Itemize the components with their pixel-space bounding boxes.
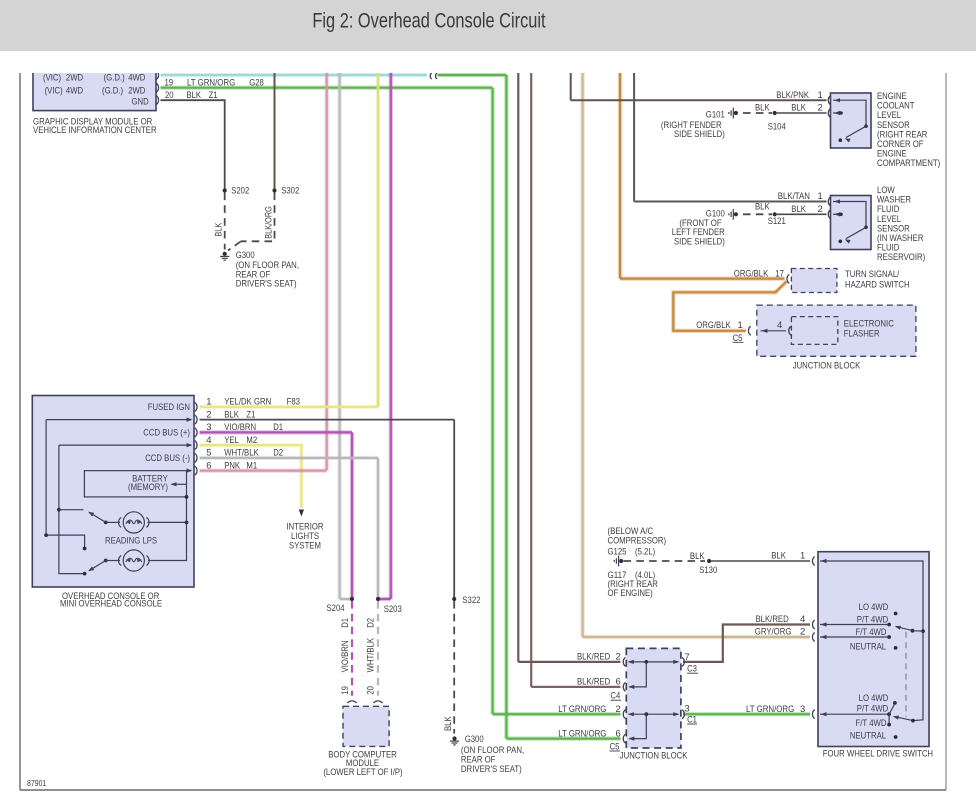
svg-text:COMPRESSOR): COMPRESSOR) [608, 536, 667, 547]
svg-text:S121: S121 [768, 216, 786, 227]
svg-text:D1: D1 [340, 618, 351, 628]
svg-text:BLK: BLK [690, 551, 705, 562]
svg-text:20: 20 [366, 686, 377, 695]
svg-text:S130: S130 [699, 565, 717, 576]
svg-text:WHT/BLK: WHT/BLK [366, 637, 377, 672]
svg-text:CCD BUS (-): CCD BUS (-) [145, 453, 190, 464]
svg-text:FOUR WHEEL DRIVE SWITCH: FOUR WHEEL DRIVE SWITCH [823, 748, 933, 759]
svg-text:BLK/PNK: BLK/PNK [776, 90, 809, 101]
svg-text:BLK/ORG: BLK/ORG [263, 206, 273, 239]
svg-text:BLK: BLK [755, 202, 770, 213]
svg-text:2WD: 2WD [128, 85, 145, 96]
svg-text:Fig 2: Overhead Console Circui: Fig 2: Overhead Console Circuit [312, 9, 545, 33]
svg-text:87901: 87901 [27, 778, 47, 788]
svg-text:S203: S203 [384, 604, 402, 615]
svg-text:19: 19 [340, 686, 351, 695]
svg-text:MINI OVERHEAD CONSOLE: MINI OVERHEAD CONSOLE [60, 599, 162, 610]
svg-text:(G.D.): (G.D.) [104, 73, 125, 84]
svg-text:(5.2L): (5.2L) [635, 547, 655, 558]
svg-text:VIO/BRN: VIO/BRN [340, 640, 351, 672]
svg-text:SIDE SHIELD): SIDE SHIELD) [674, 236, 725, 247]
svg-text:4WD: 4WD [66, 85, 83, 96]
svg-text:BLK: BLK [791, 204, 806, 215]
svg-text:BLK: BLK [443, 716, 454, 731]
svg-text:BLK/TAN: BLK/TAN [778, 191, 810, 202]
svg-text:2: 2 [616, 652, 621, 663]
svg-text:(VIC): (VIC) [45, 85, 63, 96]
svg-text:(VIC): (VIC) [43, 73, 61, 84]
svg-text:1: 1 [738, 320, 743, 331]
svg-text:S302: S302 [281, 185, 299, 196]
svg-text:BLK: BLK [791, 103, 806, 114]
svg-text:(MEMORY): (MEMORY) [128, 482, 168, 493]
svg-text:LO 4WD: LO 4WD [859, 602, 889, 613]
svg-text:BLK: BLK [214, 223, 224, 237]
svg-text:ORG/BLK: ORG/BLK [734, 268, 769, 279]
svg-text:2: 2 [818, 103, 823, 114]
svg-text:P/T 4WD: P/T 4WD [857, 703, 889, 714]
svg-text:BLK: BLK [771, 550, 786, 561]
svg-text:2: 2 [818, 204, 823, 215]
svg-text:(LOWER LEFT OF I/P): (LOWER LEFT OF I/P) [323, 767, 402, 778]
svg-text:S104: S104 [768, 121, 786, 132]
svg-text:GND: GND [132, 96, 149, 107]
svg-text:2WD: 2WD [66, 73, 83, 84]
svg-text:G125: G125 [608, 547, 627, 558]
svg-text:JUNCTION BLOCK: JUNCTION BLOCK [620, 751, 688, 762]
svg-text:LO 4WD: LO 4WD [859, 693, 889, 704]
svg-text:P/T 4WD: P/T 4WD [857, 615, 889, 626]
svg-text:COMPARTMENT): COMPARTMENT) [877, 158, 940, 169]
svg-text:6: 6 [616, 677, 621, 688]
svg-text:RESERVOIR): RESERVOIR) [877, 252, 925, 263]
svg-text:FLASHER: FLASHER [844, 329, 880, 340]
svg-text:NEUTRAL: NEUTRAL [850, 641, 886, 652]
svg-text:LT GRN/ORG: LT GRN/ORG [558, 704, 606, 715]
svg-text:4WD: 4WD [128, 73, 145, 84]
svg-text:VEHICLE INFORMATION CENTER: VEHICLE INFORMATION CENTER [33, 125, 157, 136]
svg-text:BLK: BLK [755, 103, 770, 114]
svg-text:6: 6 [616, 729, 621, 740]
svg-text:BLK/RED: BLK/RED [577, 652, 610, 663]
svg-text:S202: S202 [231, 185, 249, 196]
svg-text:D2: D2 [366, 618, 377, 628]
svg-text:F/T 4WD: F/T 4WD [856, 627, 887, 638]
svg-text:LT GRN/ORG: LT GRN/ORG [558, 729, 606, 740]
svg-text:F/T 4WD: F/T 4WD [856, 718, 887, 729]
svg-text:JUNCTION BLOCK: JUNCTION BLOCK [793, 360, 861, 371]
svg-text:1: 1 [818, 191, 823, 202]
svg-text:SIDE SHIELD): SIDE SHIELD) [674, 129, 725, 140]
svg-text:1: 1 [800, 550, 805, 561]
svg-text:ORG/BLK: ORG/BLK [696, 320, 731, 331]
svg-text:READING LPS: READING LPS [105, 536, 157, 547]
svg-text:17: 17 [775, 268, 784, 279]
svg-text:G300: G300 [465, 734, 484, 745]
svg-text:S204: S204 [327, 603, 345, 614]
svg-text:HAZARD SWITCH: HAZARD SWITCH [845, 279, 910, 290]
svg-text:SYSTEM: SYSTEM [289, 541, 321, 552]
svg-text:BLK/RED: BLK/RED [577, 677, 610, 688]
svg-text:DRIVER'S SEAT): DRIVER'S SEAT) [461, 764, 522, 775]
svg-text:3: 3 [684, 704, 689, 715]
svg-text:(G.D.): (G.D.) [102, 85, 123, 96]
svg-text:2: 2 [616, 704, 621, 715]
svg-text:7: 7 [684, 652, 689, 663]
svg-text:S322: S322 [462, 595, 480, 606]
svg-text:OF ENGINE): OF ENGINE) [608, 588, 653, 599]
svg-text:DRIVER'S SEAT): DRIVER'S SEAT) [236, 279, 297, 290]
svg-text:FUSED IGN: FUSED IGN [148, 402, 190, 413]
svg-text:4: 4 [777, 320, 782, 331]
svg-text:CCD BUS (+): CCD BUS (+) [143, 428, 190, 439]
svg-text:NEUTRAL: NEUTRAL [850, 731, 886, 742]
svg-text:1: 1 [818, 90, 823, 101]
